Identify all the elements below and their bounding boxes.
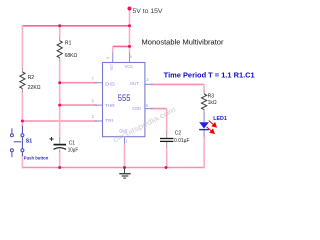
- svg-text:Monostable Multivibrator: Monostable Multivibrator: [142, 37, 224, 46]
- svg-text:VCC: VCC: [125, 64, 134, 69]
- svg-text:TRI: TRI: [105, 118, 113, 124]
- svg-text:DIS: DIS: [105, 81, 115, 87]
- svg-text:Time Period T = 1.1 R1.C1: Time Period T = 1.1 R1.C1: [164, 73, 255, 80]
- svg-text:5V to 15V: 5V to 15V: [133, 8, 164, 15]
- svg-text:22KΩ: 22KΩ: [28, 85, 41, 91]
- svg-text:1kΩ: 1kΩ: [208, 100, 217, 106]
- svg-text:555: 555: [118, 93, 131, 103]
- svg-text:R3: R3: [208, 94, 215, 100]
- svg-text:R1: R1: [65, 41, 72, 47]
- svg-text:R2: R2: [28, 75, 35, 81]
- svg-text:THR: THR: [105, 103, 115, 109]
- svg-text:RST: RST: [110, 64, 114, 70]
- svg-text:Push button: Push button: [24, 155, 49, 160]
- svg-text:10µF: 10µF: [68, 148, 79, 154]
- svg-text:C1: C1: [69, 140, 76, 146]
- svg-text:OUT: OUT: [130, 81, 139, 87]
- svg-text:CON: CON: [132, 106, 141, 112]
- svg-text:68KΩ: 68KΩ: [65, 53, 78, 59]
- svg-text:S1: S1: [26, 139, 32, 145]
- svg-text:LED1: LED1: [213, 116, 227, 122]
- svg-text:C2: C2: [175, 131, 182, 137]
- svg-text:0.01µF: 0.01µF: [174, 138, 190, 144]
